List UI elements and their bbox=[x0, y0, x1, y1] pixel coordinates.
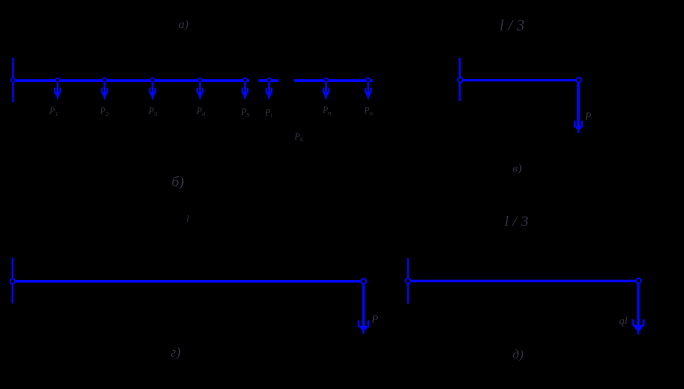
wall support C bbox=[12, 258, 14, 304]
svg-text:l: l bbox=[187, 214, 190, 224]
tip load arrow C bbox=[358, 284, 370, 334]
node B left bbox=[458, 78, 463, 83]
node a5 bbox=[243, 78, 247, 82]
wall support D bbox=[407, 258, 409, 304]
node C left bbox=[10, 279, 15, 284]
load arrow P5 bbox=[242, 83, 249, 100]
svg-text:б): б) bbox=[172, 175, 185, 191]
node D right bbox=[636, 278, 641, 283]
svg-text:P3: P3 bbox=[148, 106, 159, 118]
beam C bbox=[13, 280, 368, 283]
load arrow P2 bbox=[101, 83, 108, 100]
node a4 bbox=[198, 78, 202, 82]
node B right bbox=[576, 78, 581, 83]
beam B bbox=[460, 79, 579, 81]
svg-text:P: P bbox=[371, 314, 379, 326]
node D left bbox=[406, 279, 411, 284]
beam D bbox=[408, 280, 638, 282]
svg-text:P1: P1 bbox=[49, 106, 59, 118]
wall support B bbox=[459, 58, 461, 101]
svg-text:Pn: Pn bbox=[363, 106, 373, 118]
svg-text:P: P bbox=[584, 112, 591, 123]
svg-text:а): а) bbox=[179, 17, 189, 31]
svg-text:P2: P2 bbox=[99, 106, 110, 118]
tip load arrow D bbox=[632, 284, 644, 335]
node a2 bbox=[102, 78, 106, 82]
beam segment 1 bbox=[13, 79, 249, 82]
figure a: cantilever beam with n point loads bbox=[13, 58, 373, 102]
beam segment 2 (after break) bbox=[259, 79, 279, 82]
svg-text:Pn: Pn bbox=[322, 105, 332, 117]
load arrow P8 bbox=[365, 83, 372, 100]
node a0 bbox=[11, 78, 15, 82]
svg-text:г): г) bbox=[171, 346, 181, 361]
node a1 bbox=[55, 78, 59, 82]
svg-text:в): в) bbox=[513, 161, 522, 175]
figure b: cantilever beam with tip load bbox=[460, 58, 583, 133]
load arrow P6 bbox=[266, 83, 273, 100]
svg-text:l/3: l/3 bbox=[505, 214, 533, 230]
node a7 bbox=[324, 78, 328, 82]
svg-text:P5: P5 bbox=[240, 107, 251, 119]
svg-text:Pk: Pk bbox=[294, 132, 304, 144]
node a3 bbox=[150, 78, 154, 82]
load arrow P3 bbox=[149, 83, 156, 100]
svg-text:ql: ql bbox=[619, 315, 628, 327]
load arrow P1 bbox=[54, 83, 61, 100]
node a6 bbox=[267, 78, 271, 82]
figure c: long cantilever with tip load bbox=[13, 258, 370, 334]
wall support A bbox=[12, 58, 14, 102]
svg-text:Pi: Pi bbox=[264, 108, 273, 120]
beam segment 3 (after break) bbox=[294, 79, 373, 82]
tip load arrow B bbox=[574, 83, 583, 133]
node C right bbox=[361, 279, 366, 284]
load arrow P4 bbox=[197, 83, 204, 100]
load arrow P7 bbox=[323, 83, 330, 100]
svg-text:д): д) bbox=[513, 347, 524, 362]
node a8 bbox=[366, 78, 370, 82]
figure d: cantilever with tip load ql bbox=[408, 258, 645, 335]
svg-text:l/3: l/3 bbox=[500, 18, 529, 35]
svg-text:P4: P4 bbox=[196, 106, 207, 118]
